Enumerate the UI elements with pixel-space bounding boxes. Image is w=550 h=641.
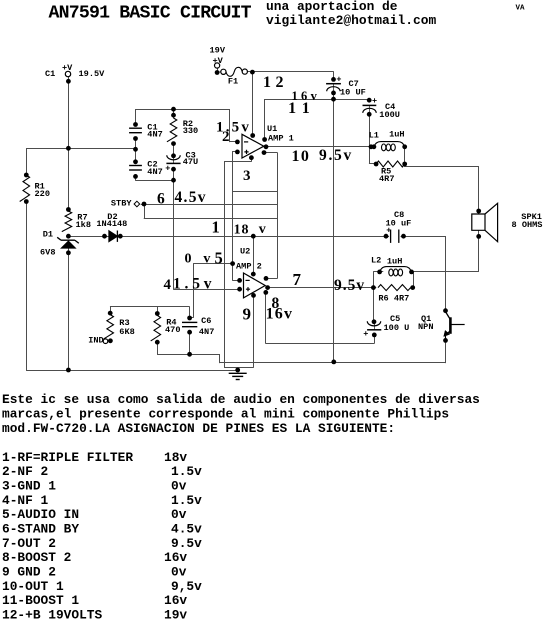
svg-text:19.5V: 19.5V — [79, 69, 106, 79]
svg-text:+: + — [386, 226, 391, 236]
svg-text:19v: 19v — [164, 607, 187, 622]
svg-text:9.5v: 9.5v — [319, 147, 353, 164]
svg-text:6-STAND BY: 6-STAND BY — [2, 521, 79, 536]
svg-text:C6: C6 — [201, 316, 211, 326]
svg-text:330: 330 — [183, 126, 198, 136]
svg-text:6: 6 — [157, 191, 165, 208]
svg-text:0v: 0v — [171, 564, 187, 579]
svg-text:vigilante2@hotmail.com: vigilante2@hotmail.com — [266, 13, 436, 28]
svg-text:220: 220 — [35, 189, 50, 199]
svg-text:11-BOOST 1: 11-BOOST 1 — [2, 593, 79, 608]
svg-text:AMP 2: AMP 2 — [236, 262, 262, 272]
svg-text:marcas,el presente corresponde: marcas,el presente corresponde al mini c… — [2, 407, 449, 422]
svg-text:4N7: 4N7 — [199, 327, 214, 337]
svg-text:7-OUT 2: 7-OUT 2 — [2, 536, 56, 551]
svg-text:0v: 0v — [171, 478, 187, 493]
svg-text:1.5v: 1.5v — [171, 464, 202, 479]
svg-text:2-NF 2: 2-NF 2 — [2, 464, 48, 479]
svg-text:+: + — [336, 75, 341, 85]
svg-text:1N4148: 1N4148 — [96, 219, 127, 229]
svg-text:v: v — [259, 222, 266, 237]
svg-text:AMP 1: AMP 1 — [268, 133, 294, 143]
svg-text:5: 5 — [215, 248, 223, 267]
svg-text:R6 4R7: R6 4R7 — [378, 294, 409, 304]
svg-text:8 OHMS: 8 OHMS — [512, 220, 543, 230]
svg-text:+: + — [165, 163, 170, 173]
svg-text:3: 3 — [243, 168, 251, 184]
svg-text:16v: 16v — [164, 593, 187, 608]
svg-text:4N7: 4N7 — [147, 167, 162, 177]
svg-text:0 v: 0 v — [185, 252, 215, 267]
svg-text:470: 470 — [165, 325, 180, 335]
svg-text:16v: 16v — [164, 550, 187, 565]
svg-text:1: 1 — [212, 218, 220, 237]
svg-text:4.5v: 4.5v — [175, 189, 207, 206]
svg-text:9.5v: 9.5v — [171, 536, 202, 551]
svg-text:47U: 47U — [183, 157, 198, 167]
svg-text:4N7: 4N7 — [147, 130, 162, 140]
svg-text:0v: 0v — [171, 507, 187, 522]
svg-text:AN7591 BASIC CIRCUIT: AN7591 BASIC CIRCUIT — [49, 3, 252, 23]
svg-text:3-GND 1: 3-GND 1 — [2, 478, 56, 493]
svg-text:9: 9 — [243, 304, 252, 323]
svg-text:18v: 18v — [164, 450, 187, 465]
svg-text:L2: L2 — [371, 255, 381, 265]
svg-text:19V: 19V — [210, 46, 226, 56]
svg-text:IND: IND — [88, 335, 103, 345]
svg-text:2: 2 — [222, 129, 230, 145]
svg-text:mod.FW-C720.LA ASIGNACION DE P: mod.FW-C720.LA ASIGNACION DE PINES ES LA… — [2, 421, 395, 436]
svg-text:4: 4 — [164, 277, 172, 293]
svg-text:7: 7 — [293, 270, 302, 289]
svg-text:VA: VA — [516, 5, 526, 13]
svg-text:6V8: 6V8 — [40, 248, 55, 258]
svg-text:4R7: 4R7 — [379, 174, 394, 184]
svg-text:100 U: 100 U — [384, 323, 410, 333]
svg-text:C1: C1 — [45, 69, 55, 79]
svg-text:4-NF 1: 4-NF 1 — [2, 493, 49, 508]
svg-text:6K8: 6K8 — [119, 327, 134, 337]
svg-text:10-OUT 1: 10-OUT 1 — [2, 579, 64, 594]
svg-text:9.5v: 9.5v — [334, 277, 365, 294]
svg-text:+V: +V — [213, 56, 224, 66]
svg-text:10: 10 — [292, 148, 311, 165]
svg-text:4.5v: 4.5v — [171, 521, 202, 536]
svg-text:1uH: 1uH — [389, 130, 404, 140]
svg-text:1-RF=RIPLE FILTER: 1-RF=RIPLE FILTER — [2, 450, 133, 465]
svg-text:9,5v: 9,5v — [171, 579, 202, 594]
svg-text:U2: U2 — [240, 247, 250, 257]
svg-text:1k8: 1k8 — [76, 220, 91, 230]
svg-text:Este ic se usa como salida de: Este ic se usa como salida de audio en c… — [2, 392, 480, 407]
svg-text:16v: 16v — [266, 306, 294, 323]
svg-text:una aportacion de: una aportacion de — [266, 0, 398, 14]
svg-text:18: 18 — [234, 223, 250, 238]
svg-text:100U: 100U — [379, 110, 400, 120]
svg-text:12-+B 19VOLTS: 12-+B 19VOLTS — [2, 607, 102, 622]
svg-text:9 GND 2: 9 GND 2 — [2, 564, 56, 579]
svg-text:5-AUDIO IN: 5-AUDIO IN — [2, 507, 79, 522]
svg-text:1uH: 1uH — [387, 257, 402, 267]
svg-text:STBY: STBY — [111, 199, 132, 209]
svg-text:L1: L1 — [369, 131, 379, 141]
svg-text:10 UF: 10 UF — [340, 87, 366, 97]
svg-text:NPN: NPN — [418, 322, 433, 332]
svg-text:8-BOOST 2: 8-BOOST 2 — [2, 550, 71, 565]
svg-text:D1: D1 — [43, 229, 53, 239]
svg-text:+: + — [372, 96, 377, 106]
svg-text:1.5v: 1.5v — [173, 275, 215, 292]
svg-text:1.5v: 1.5v — [171, 493, 202, 508]
svg-text:12: 12 — [263, 74, 288, 91]
svg-text:11: 11 — [288, 100, 316, 117]
svg-text:+V: +V — [62, 63, 73, 73]
svg-text:F1: F1 — [228, 76, 238, 86]
svg-text:+: + — [363, 329, 368, 339]
